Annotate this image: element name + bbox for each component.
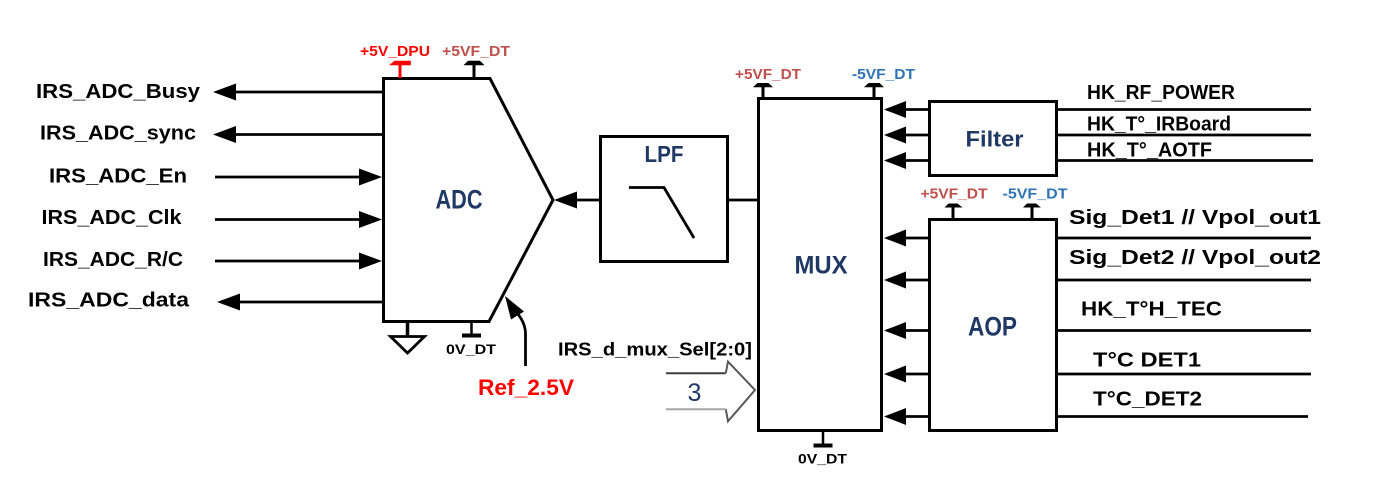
svg-text:IRS_ADC_R/C: IRS_ADC_R/C <box>43 249 183 271</box>
power 0V_DT symbol (ADC) <box>462 320 481 336</box>
Filter block <box>930 102 1057 176</box>
wire HK_T°_IRBoard <box>1058 134 1311 137</box>
arrowhead ch1 into MUX <box>884 101 906 118</box>
wire Ref_2.5V arrow <box>517 313 526 366</box>
wire AOP ch3 to MUX <box>903 329 929 332</box>
arrowhead IRS_ADC_data (out, left) <box>217 294 240 311</box>
arrowhead AOP ch3 into MUX <box>884 322 906 339</box>
svg-text:Sig_Det2 // Vpol_out2: Sig_Det2 // Vpol_out2 <box>1069 247 1321 269</box>
svg-text:MUX: MUX <box>795 252 848 280</box>
svg-text:T°C_DET2: T°C_DET2 <box>1093 389 1202 411</box>
arrowhead into ADC <box>554 192 577 209</box>
arrowhead IRS_ADC_Busy (out, left) <box>213 84 236 101</box>
bus select block arrow (3) <box>666 362 755 422</box>
power -5VF_DT symbol (MUX) <box>864 83 884 99</box>
power +5VF_DT symbol (MUX) <box>753 83 773 99</box>
wire AOP ch5 to MUX <box>903 415 929 418</box>
svg-text:Ref_2.5V: Ref_2.5V <box>478 375 574 400</box>
wire HK_T°H_TEC <box>1058 329 1311 332</box>
svg-text:HK_RF_POWER: HK_RF_POWER <box>1087 82 1236 104</box>
wire Sig_Det2 <box>1058 279 1311 282</box>
arrowhead Ref_2.5V <box>505 296 524 320</box>
power +5V_DPU symbol <box>389 61 411 78</box>
wire T°C_DET2 <box>1058 415 1308 418</box>
svg-text:+5VF_DT: +5VF_DT <box>735 66 801 83</box>
wire AOP ch1 to MUX <box>903 237 929 240</box>
svg-text:ADC: ADC <box>436 184 483 214</box>
svg-text:Filter: Filter <box>966 126 1024 151</box>
svg-text:+5VF_DT: +5VF_DT <box>921 186 988 203</box>
svg-text:+5VF_DT: +5VF_DT <box>442 43 510 60</box>
arrowhead IRS_ADC_R/C (in, right) <box>359 253 382 270</box>
svg-text:IRS_ADC_data: IRS_ADC_data <box>28 290 190 312</box>
wire IRS_ADC_Busy <box>232 91 383 94</box>
svg-text:-5VF_DT: -5VF_DT <box>852 66 915 83</box>
arrowhead IRS_ADC_sync (out, left) <box>213 126 236 143</box>
power -5VF_DT symbol (AOP) <box>1023 204 1041 221</box>
wire IRS_ADC_R/C <box>215 260 362 263</box>
wire AOP ch2 to MUX <box>903 279 929 282</box>
arrowhead AOP ch4 into MUX <box>884 366 906 383</box>
arrowhead ch2 into MUX <box>884 127 906 144</box>
wire HK_T°_AOTF <box>1058 159 1313 162</box>
wire LPF to ADC <box>575 199 600 202</box>
wire MUX to LPF <box>727 199 758 202</box>
arrowhead AOP ch2 into MUX <box>884 272 906 289</box>
wire IRS_ADC_Clk <box>215 218 362 221</box>
svg-text:HK_T°_IRBoard: HK_T°_IRBoard <box>1087 114 1231 136</box>
MUX block <box>759 99 882 431</box>
svg-text:3: 3 <box>688 379 702 407</box>
svg-text:IRS_d_mux_Sel[2:0]: IRS_d_mux_Sel[2:0] <box>558 340 752 360</box>
arrowhead IRS_ADC_Clk (in, right) <box>359 211 382 228</box>
arrowhead AOP ch5 into MUX <box>884 408 906 425</box>
arrowhead ch3 into MUX <box>884 152 906 169</box>
svg-text:AOP: AOP <box>968 312 1017 342</box>
svg-text:HK_T°_AOTF: HK_T°_AOTF <box>1087 140 1212 162</box>
wire HK_RF_POWER <box>1058 108 1311 111</box>
arrowhead AOP ch1 into MUX <box>884 230 906 247</box>
LPF filter curve <box>629 188 694 239</box>
svg-text:0V_DT: 0V_DT <box>446 341 497 357</box>
svg-text:+5V_DPU: +5V_DPU <box>360 43 430 60</box>
wire Filter ch3 to MUX <box>903 159 929 162</box>
svg-text:Sig_Det1 // Vpol_out1: Sig_Det1 // Vpol_out1 <box>1069 207 1321 229</box>
svg-text:LPF: LPF <box>645 141 684 167</box>
svg-text:IRS_ADC_Busy: IRS_ADC_Busy <box>36 81 201 103</box>
power 0V_DT symbol (MUX) <box>814 431 833 446</box>
svg-text:HK_T°H_TEC: HK_T°H_TEC <box>1081 299 1222 321</box>
wire IRS_ADC_En <box>215 176 362 179</box>
AOP block <box>930 220 1057 431</box>
svg-text:IRS_ADC_sync: IRS_ADC_sync <box>40 123 196 145</box>
wire Sig_Det1 <box>1058 237 1311 240</box>
svg-text:IRS_ADC_En: IRS_ADC_En <box>49 166 187 188</box>
ground symbol (ADC) <box>391 320 425 353</box>
svg-text:IRS_ADC_Clk: IRS_ADC_Clk <box>42 207 183 229</box>
LPF block <box>601 137 728 262</box>
wire IRS_ADC_sync <box>232 133 383 136</box>
ADC block U1 <box>384 79 554 322</box>
wire Filter ch1 to MUX <box>903 108 929 111</box>
svg-text:-5VF_DT: -5VF_DT <box>1003 186 1068 203</box>
wire AOP ch4 to MUX <box>903 373 929 376</box>
svg-text:T°C DET1: T°C DET1 <box>1093 350 1201 372</box>
power +5VF_DT symbol (ADC) <box>464 61 485 78</box>
wire T°C DET1 <box>1058 373 1311 376</box>
wire IRS_ADC_data <box>236 301 383 304</box>
power +5VF_DT symbol (AOP) <box>945 204 963 221</box>
wire Filter ch2 to MUX <box>903 134 929 137</box>
arrowhead IRS_ADC_En (in, right) <box>359 169 382 186</box>
svg-text:0V_DT: 0V_DT <box>798 451 847 467</box>
